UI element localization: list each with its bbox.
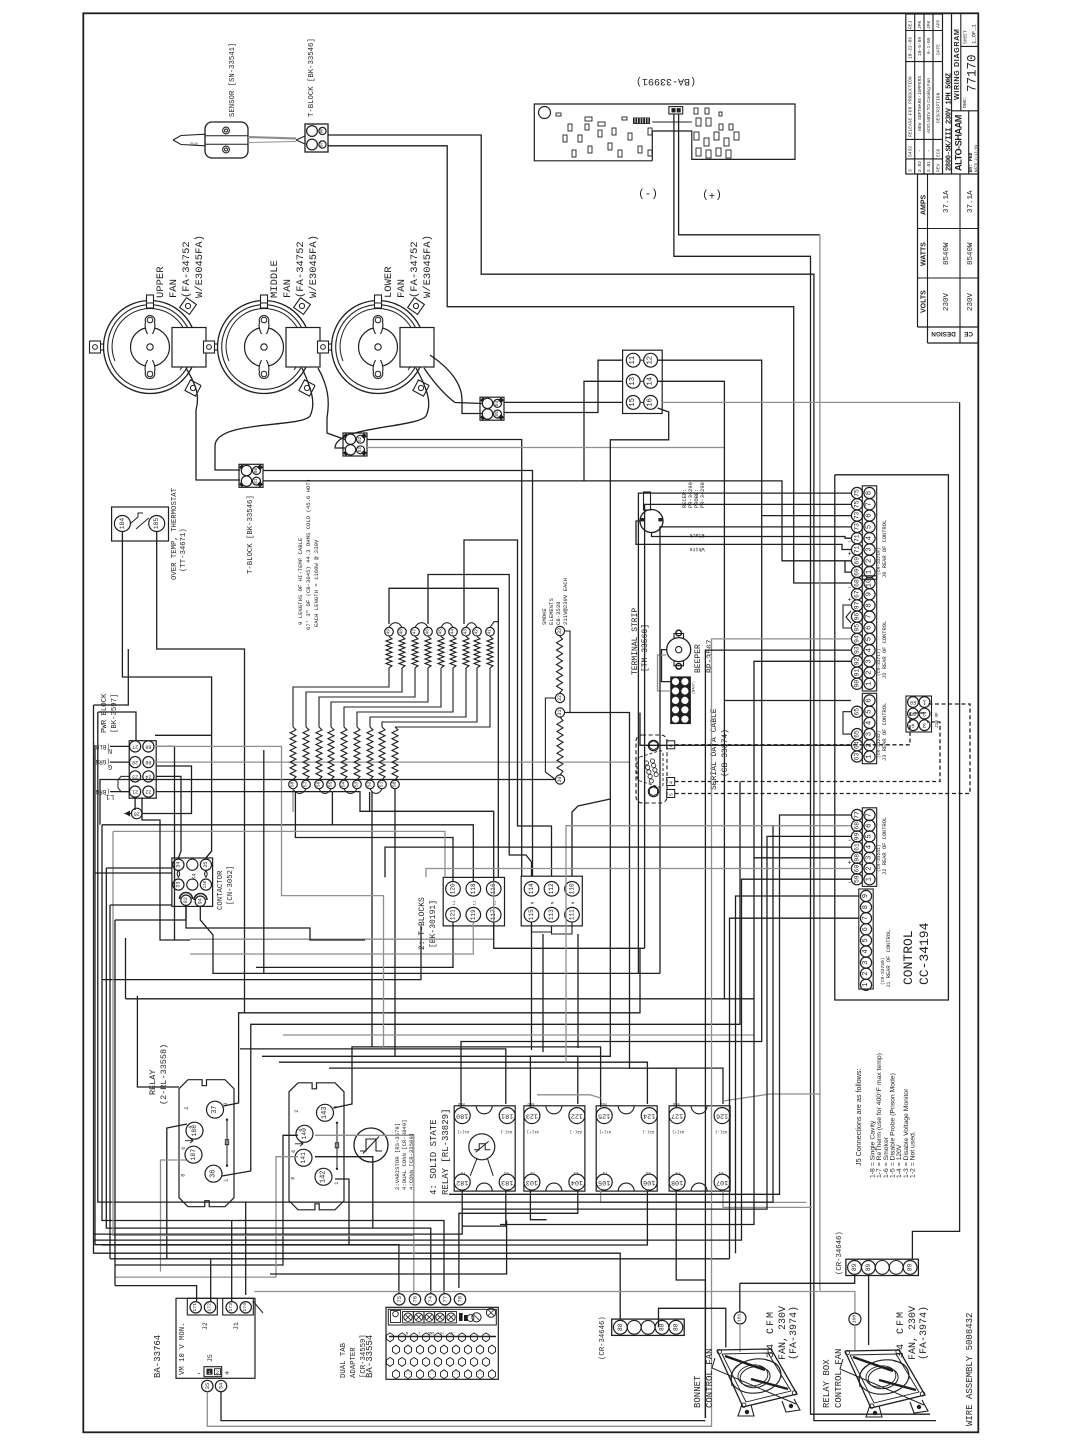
BA-33764 label (153, 1335, 163, 1378)
svg-text:60: 60 (854, 865, 861, 873)
svg-text:ELEMENTS: ELEMENTS (548, 598, 555, 625)
power block BK-3597 (129, 741, 156, 799)
terminal strip TM-33560 (671, 677, 697, 724)
svg-text:RELAY [RL-33829]: RELAY [RL-33829] (441, 1109, 451, 1195)
svg-text:76: 76 (412, 1296, 419, 1303)
svg-text:35: 35 (204, 1383, 211, 1390)
svg-text:A1[+]: A1[+] (527, 1129, 539, 1134)
svg-text:1-2 = Not used.: 1-2 = Not used. (909, 1131, 916, 1178)
label G GRN (92, 758, 112, 770)
svg-text:ADD MOV TO Cooling Fan: ADD MOV TO Cooling Fan (926, 78, 931, 133)
solid state relay SSR3 (596, 1101, 657, 1191)
element feed 2 (428, 575, 532, 877)
wire j1 nest 9 (730, 918, 859, 1259)
svg-text:SENSOR [SN-33541]: SENSOR [SN-33541] (229, 43, 237, 117)
svg-text:52: 52 (367, 781, 373, 787)
svg-text:94: 94 (854, 635, 861, 643)
wire 113 down (542, 934, 544, 1052)
svg-text:127: 127 (671, 1112, 683, 1120)
wire 14 run (658, 381, 725, 999)
wire 81 run (263, 481, 851, 561)
label black wire (689, 532, 704, 538)
wire ssr feed 124 (279, 1062, 647, 1104)
wire elem 58 down (292, 789, 294, 812)
wire 110 feed (572, 799, 610, 876)
wire 88 4th (659, 1308, 726, 1347)
wire 121 down (256, 922, 453, 967)
svg-text:NEW SOFTWARE-JUMPERS: NEW SOFTWARE-JUMPERS (917, 76, 923, 131)
svg-text:143: 143 (321, 1106, 329, 1119)
svg-text:93: 93 (854, 646, 861, 654)
svg-text:WATTS: WATTS (921, 242, 928, 266)
J2 label (876, 817, 888, 875)
svg-text:6: 6 (866, 626, 874, 630)
temperature sensor SN-33541 (173, 122, 248, 158)
svg-text:BONNET: BONNET (693, 1375, 703, 1408)
svg-text:103: 103 (526, 1178, 538, 1186)
svg-text:20: 20 (134, 811, 140, 817)
svg-text:RED: RED (457, 1101, 465, 1105)
svg-text:N: N (552, 902, 556, 904)
svg-text:CONTACTOR: CONTACTOR (217, 870, 225, 910)
svg-text:14: 14 (647, 377, 655, 386)
wire L1 lead (110, 791, 129, 793)
svg-text:88: 88 (672, 1323, 679, 1331)
svg-text:1: 1 (334, 1182, 340, 1185)
wire G gray run (154, 761, 630, 763)
svg-text:107: 107 (716, 1178, 728, 1186)
receptacle PR-34299 (640, 492, 663, 533)
t-block 84/85 (480, 397, 504, 420)
wire 31 run (565, 713, 677, 1108)
svg-text:73: 73 (854, 512, 861, 520)
svg-text:EACH LENGTH = 1160W @ 230V: EACH LENGTH = 1160W @ 230V (313, 539, 320, 627)
wire 172 up (210, 1259, 212, 1301)
dashed serial 4 (675, 722, 940, 782)
svg-text:1: 1 (862, 983, 870, 987)
svg-text:-: - (197, 1370, 202, 1379)
wire lb2 (94, 649, 129, 705)
svg-text:CB-3538: CB-3538 (555, 602, 562, 626)
svg-text:92: 92 (854, 657, 861, 665)
svg-text:B6: B6 (321, 128, 325, 133)
svg-text:T1: T1 (602, 1170, 607, 1174)
svg-text:T1: T1 (460, 1170, 465, 1174)
bracket rows3-4 (118, 776, 129, 791)
svg-text:L1: L1 (473, 900, 477, 905)
svg-text:4:DUAL CONN [CR-3849]: 4:DUAL CONN [CR-3849] (401, 1120, 408, 1191)
wire ssr feed 127 (137, 996, 179, 1087)
wire 111 down (577, 934, 579, 1048)
svg-text:6: 6 (181, 1147, 187, 1150)
svg-text:J5: J5 (207, 1354, 214, 1362)
svg-text:3: 3 (862, 960, 870, 964)
wire j2 sweep 2 (385, 847, 851, 877)
svg-text:59: 59 (854, 875, 861, 883)
svg-text:83: 83 (358, 447, 363, 453)
svg-text:RED: RED (672, 1101, 680, 1105)
wire jumper plus (679, 114, 820, 235)
wire 37 run (224, 948, 641, 1106)
svg-text:34: 34 (175, 862, 181, 868)
svg-text:89: 89 (851, 1263, 858, 1271)
wire 89 left (740, 1275, 855, 1284)
svg-text:-: - (847, 536, 851, 544)
svg-text:118: 118 (470, 883, 477, 894)
wire lb8 (114, 920, 116, 1286)
svg-text:OVER TEMP, THERMOSTAT: OVER TEMP, THERMOSTAT (171, 487, 179, 580)
svg-text:[TM-33560]: [TM-33560] (641, 624, 650, 672)
svg-text:125: 125 (598, 1112, 610, 1120)
svg-text:106: 106 (643, 1178, 655, 1186)
svg-text:ECO: ECO (936, 148, 942, 157)
upper fan motor FA-34752 (90, 295, 207, 396)
board BA-33554 (386, 1307, 498, 1379)
svg-text:+: + (847, 548, 851, 556)
svg-text:75: 75 (854, 489, 861, 497)
label plus (702, 188, 722, 200)
svg-text:BY: PED: BY: PED (968, 152, 974, 172)
t-block BK-30191 left (443, 877, 504, 926)
svg-text:172: 172 (207, 1303, 213, 1312)
svg-text:74: 74 (427, 1295, 434, 1302)
wire 174 up (245, 1202, 247, 1295)
wire 13 feed (584, 381, 623, 481)
relay K1 (2-RL-33558) (179, 1080, 234, 1207)
receptacle label (682, 482, 706, 508)
label N BLU (92, 743, 112, 754)
svg-text:56: 56 (316, 781, 322, 787)
svg-text:A1[+]: A1[+] (672, 1129, 684, 1134)
wire N lead (110, 745, 129, 747)
svg-text:L1: L1 (503, 1170, 508, 1174)
wire j3 in1 (640, 713, 851, 746)
svg-text:FAN: FAN (396, 279, 408, 298)
svg-text:1: 1 (922, 699, 926, 706)
svg-text:FAN, 230V: FAN, 230V (908, 1306, 919, 1360)
svg-text:2: 2 (866, 559, 874, 563)
wire 183 down (462, 1191, 506, 1226)
svg-text:230V: 230V (943, 292, 951, 311)
wire 187 run (161, 1160, 187, 1272)
svg-text:REJ: REJ (908, 20, 914, 29)
cr-34646 label 2 (836, 1231, 844, 1275)
wire ssr feed 181 (240, 1049, 506, 1104)
wire recep black (652, 533, 852, 539)
svg-text:24: 24 (145, 773, 151, 779)
wire pwr v2 (156, 776, 181, 858)
svg-text:211V@230V EACH: 211V@230V EACH (562, 578, 569, 625)
wire 143 run (334, 1047, 601, 1108)
circuit board BA-33991 (534, 104, 795, 161)
wire v263 (263, 750, 265, 973)
svg-text:CC-34194: CC-34194 (917, 922, 932, 985)
svg-text:W/E3045FA): W/E3045FA) (194, 235, 206, 298)
wire pwr down a (134, 797, 136, 810)
svg-text:LOWER: LOWER (383, 266, 395, 298)
svg-text:45: 45 (438, 629, 444, 635)
svg-text:112: 112 (548, 883, 555, 894)
serial DB9 connector (636, 735, 675, 803)
svg-text:173: 173 (228, 1303, 234, 1312)
svg-text:BA-33554: BA-33554 (365, 1335, 375, 1378)
svg-text:5: 5 (866, 834, 874, 838)
svg-text:100: 100 (851, 1315, 857, 1324)
sensor label (229, 43, 237, 117)
svg-text:23: 23 (132, 773, 138, 779)
svg-text:B7: B7 (321, 142, 325, 147)
svg-text:FAN: FAN (282, 279, 294, 298)
wire lb10 (155, 734, 211, 736)
svg-text:WIRING DIAGRAM: WIRING DIAGRAM (952, 29, 961, 100)
svg-text:2: 2 (862, 972, 870, 976)
svg-text:8: 8 (291, 1177, 297, 1180)
svg-text:89: 89 (865, 1263, 872, 1271)
wire 82 run (367, 440, 522, 877)
wire 106 down (102, 1191, 647, 1245)
svg-text:27: 27 (132, 743, 138, 749)
wire fan2 lead b (318, 368, 345, 440)
control outline box (835, 475, 949, 1000)
svg-text:105: 105 (598, 1178, 610, 1186)
svg-text:9: 9 (862, 894, 870, 898)
wire bb3 (102, 825, 444, 1293)
wire 85 run (504, 360, 623, 412)
svg-text:4: 4 (866, 535, 874, 540)
svg-text:3: 3 (866, 856, 874, 860)
J5 label (876, 621, 888, 679)
svg-text:N: N (572, 902, 576, 904)
svg-text:69: 69 (854, 568, 861, 576)
wire lb7 (109, 905, 111, 1259)
svg-text:81: 81 (254, 478, 259, 484)
wire 120 up (295, 792, 453, 882)
svg-text:141: 141 (300, 1152, 307, 1164)
bonnet fan spec (766, 1306, 800, 1360)
wire v705 (705, 650, 851, 1418)
svg-text:42: 42 (474, 629, 480, 635)
svg-text:J2: J2 (202, 1322, 209, 1330)
connector J1 CR-33750 (859, 889, 873, 990)
svg-text:15: 15 (629, 398, 637, 407)
svg-text:37.1A: 37.1A (943, 190, 951, 213)
terminal block 11-16 (623, 350, 663, 413)
svg-text:55: 55 (328, 781, 334, 787)
wire beeper b gray (658, 655, 672, 691)
svg-text:98: 98 (854, 854, 861, 862)
svg-text:21: 21 (132, 789, 138, 795)
svg-text:G0: G0 (910, 711, 916, 717)
svg-text:51: 51 (379, 781, 385, 787)
svg-text:88: 88 (145, 743, 151, 749)
relay label (148, 1044, 169, 1105)
wire bb1 (98, 712, 773, 1202)
svg-text:-: - (847, 582, 851, 590)
svg-text:6: 6 (862, 927, 870, 931)
svg-text:122: 122 (571, 1112, 583, 1120)
svg-text:96: 96 (854, 613, 861, 621)
svg-text:49: 49 (386, 629, 392, 635)
svg-text:90: 90 (854, 680, 861, 688)
wire elem 52 down (371, 791, 373, 1047)
label minus (638, 187, 658, 199)
pins 75-78 (394, 1294, 466, 1305)
svg-text:80: 80 (254, 468, 259, 474)
svg-text:2: 2 (184, 1107, 190, 1110)
svg-text:16: 16 (647, 398, 655, 407)
wire 116 up (190, 882, 494, 940)
svg-text:BEEPER: BEEPER (694, 644, 703, 673)
svg-text:8540W: 8540W (967, 242, 975, 265)
svg-text:4: 4 (866, 844, 874, 849)
solid state relay SSR2 (524, 1101, 585, 1191)
svg-text:115: 115 (528, 909, 535, 920)
svg-text:(2-RL-33558): (2-RL-33558) (159, 1044, 169, 1105)
bonnet fan label (693, 1349, 715, 1408)
svg-text:+V: +V (439, 1330, 444, 1334)
svg-text:A2[-]: A2[-] (500, 1129, 512, 1134)
svg-text:L1: L1 (573, 1170, 578, 1174)
svg-text:BA-33764: BA-33764 (153, 1335, 163, 1378)
wire 83 run gray (367, 447, 724, 449)
svg-text:34: 34 (218, 1382, 225, 1389)
svg-text:N: N (532, 902, 536, 904)
wire 185 run (157, 532, 245, 1013)
over-temp thermostat TT-34671 (112, 507, 169, 541)
svg-text:(BA07): (BA07) (692, 681, 697, 694)
svg-text:4: 4 (862, 949, 870, 953)
svg-text:5: 5 (866, 637, 874, 641)
svg-text:67: 67 (854, 590, 861, 598)
svg-text:43: 43 (463, 629, 469, 635)
svg-text:White: White (689, 546, 704, 552)
svg-text:32: 32 (557, 695, 563, 701)
svg-text:4: 4 (298, 1129, 304, 1132)
svg-text:6: 6 (866, 824, 874, 828)
svg-text:44: 44 (450, 629, 456, 635)
lower fan label (383, 235, 434, 298)
svg-text:77: 77 (442, 1296, 449, 1303)
svg-text:2.02: 2.02 (917, 161, 923, 172)
svg-text:ADAPTER: ADAPTER (350, 1347, 358, 1378)
svg-text:5: 5 (669, 793, 675, 796)
svg-text:82: 82 (358, 436, 363, 442)
svg-text:3: 3 (866, 547, 874, 551)
connector CR-34646 relay (846, 1259, 919, 1275)
wire lb9 (95, 872, 172, 874)
svg-text:(-): (-) (638, 187, 658, 199)
beeper label (694, 639, 715, 673)
wire j2 nest 7 (94, 879, 852, 1240)
svg-text:2.01: 2.01 (926, 161, 932, 172)
svg-text:L1: L1 (718, 1170, 723, 1174)
svg-text:64: 64 (854, 741, 861, 749)
svg-text:6: 6 (866, 698, 874, 702)
smoke elements chain (545, 626, 570, 784)
wire 107 down (723, 1191, 812, 1208)
element feed 1 (389, 588, 498, 877)
wire bb8 (115, 1286, 197, 1301)
svg-text:119: 119 (470, 909, 477, 920)
wire lb7b (110, 904, 172, 906)
svg-text:53: 53 (354, 781, 360, 787)
wire recep white (636, 521, 851, 550)
varistor label (394, 1120, 415, 1191)
wire j2 sweep gray 3 (426, 869, 851, 878)
wire lb6 (106, 867, 172, 869)
svg-text:71: 71 (854, 534, 861, 542)
wire 80 run (263, 471, 533, 877)
elements note (297, 479, 320, 630)
svg-text:(TT-34671): (TT-34671) (180, 528, 188, 572)
svg-text:6: 6 (291, 1150, 297, 1153)
svg-text:185: 185 (153, 518, 160, 530)
svg-text:4: 4 (866, 720, 874, 725)
wire lb3 (94, 744, 96, 746)
svg-text:5: 5 (866, 710, 874, 714)
wire fan3 lead a (335, 368, 429, 448)
svg-text:126: 126 (716, 1112, 728, 1120)
svg-text:37: 37 (211, 1105, 219, 1113)
wire 103 down (530, 1191, 546, 1220)
svg-text:T-BLOCK [BK-33546]: T-BLOCK [BK-33546] (308, 38, 316, 117)
svg-text:8: 8 (866, 491, 874, 495)
svg-text:37.1A: 37.1A (967, 190, 975, 213)
wire elem 52 link down (369, 792, 371, 811)
relay K2 (2-RL-33558) (289, 1083, 344, 1210)
wire 119 down (190, 922, 473, 954)
relay box fan (840, 1349, 928, 1417)
svg-text:W/E3045FA): W/E3045FA) (422, 235, 434, 298)
svg-text:114: 114 (528, 883, 535, 894)
svg-text:SHEET: SHEET (963, 30, 969, 44)
t-block BK-33546 (sensor) (305, 124, 328, 152)
svg-text:T1: T1 (530, 1170, 535, 1174)
svg-text:(CR-34646): (CR-34646) (836, 1231, 844, 1275)
svg-text:AMPS: AMPS (921, 194, 928, 215)
wire ssr gray long (723, 1094, 821, 1101)
wire lb4 (102, 824, 332, 826)
svg-text:65: 65 (854, 708, 861, 716)
svg-text:22: 22 (145, 789, 151, 795)
svg-text:48: 48 (399, 629, 405, 635)
wire assembly note (965, 1313, 975, 1426)
relay fan spec (896, 1306, 930, 1360)
wire 108 down (676, 1191, 705, 1418)
wire contactor 35 up (206, 851, 212, 858)
svg-text:91: 91 (854, 669, 861, 677)
svg-text:CONTROL: CONTROL (901, 930, 916, 985)
svg-text:108: 108 (671, 1178, 683, 1186)
wire j3 stub (724, 700, 851, 702)
ssr label (429, 1109, 451, 1195)
svg-text:71: 71 (854, 546, 861, 554)
terminal 20 with arrow (125, 808, 143, 819)
t-block 82/83 (343, 433, 367, 456)
dual tab label (340, 1334, 368, 1378)
wire lb8b (115, 906, 186, 920)
label L1 BRN (92, 788, 114, 800)
svg-text:58: 58 (290, 781, 296, 787)
svg-text:(FA-34752: (FA-34752 (409, 241, 421, 298)
svg-text:DESCRIPTION: DESCRIPTION (936, 92, 942, 123)
wire lb1 (98, 712, 136, 741)
svg-text:97: 97 (854, 601, 861, 609)
svg-text:30: 30 (557, 776, 563, 782)
svg-text:47: 47 (412, 629, 418, 635)
wire pwr v3 (142, 797, 190, 940)
wire pwr right b (156, 792, 494, 882)
